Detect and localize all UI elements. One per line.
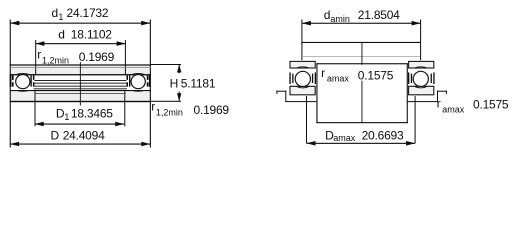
svg-text:0.1575: 0.1575 — [473, 97, 509, 111]
svg-text:r: r — [437, 97, 441, 111]
svg-text:1: 1 — [58, 12, 63, 22]
svg-text:d: d — [324, 8, 330, 22]
svg-text:r: r — [37, 47, 41, 61]
svg-text:18.1102: 18.1102 — [71, 28, 112, 42]
svg-text:r: r — [321, 66, 325, 80]
svg-text:24.4094: 24.4094 — [63, 129, 105, 143]
svg-text:amax: amax — [442, 104, 465, 114]
svg-text:20.6693: 20.6693 — [362, 128, 404, 142]
svg-text:1,2min: 1,2min — [156, 108, 183, 118]
svg-text:1: 1 — [64, 112, 69, 122]
svg-text:0.1969: 0.1969 — [194, 103, 230, 117]
svg-text:D: D — [51, 129, 60, 143]
svg-text:0.1575: 0.1575 — [358, 68, 394, 82]
svg-text:d: d — [52, 6, 58, 20]
svg-text:21.8504: 21.8504 — [358, 8, 400, 22]
svg-text:H: H — [170, 76, 178, 90]
svg-text:1,2min: 1,2min — [42, 55, 69, 65]
svg-text:r: r — [151, 100, 155, 114]
svg-text:24.1732: 24.1732 — [67, 6, 109, 20]
svg-text:amax: amax — [333, 133, 356, 143]
svg-text:0.1969: 0.1969 — [79, 50, 115, 64]
svg-text:5.1181: 5.1181 — [181, 76, 216, 90]
svg-text:amax: amax — [327, 73, 350, 83]
svg-text:18.3465: 18.3465 — [71, 107, 113, 121]
svg-text:amin: amin — [330, 14, 350, 24]
svg-text:d: d — [58, 28, 64, 42]
